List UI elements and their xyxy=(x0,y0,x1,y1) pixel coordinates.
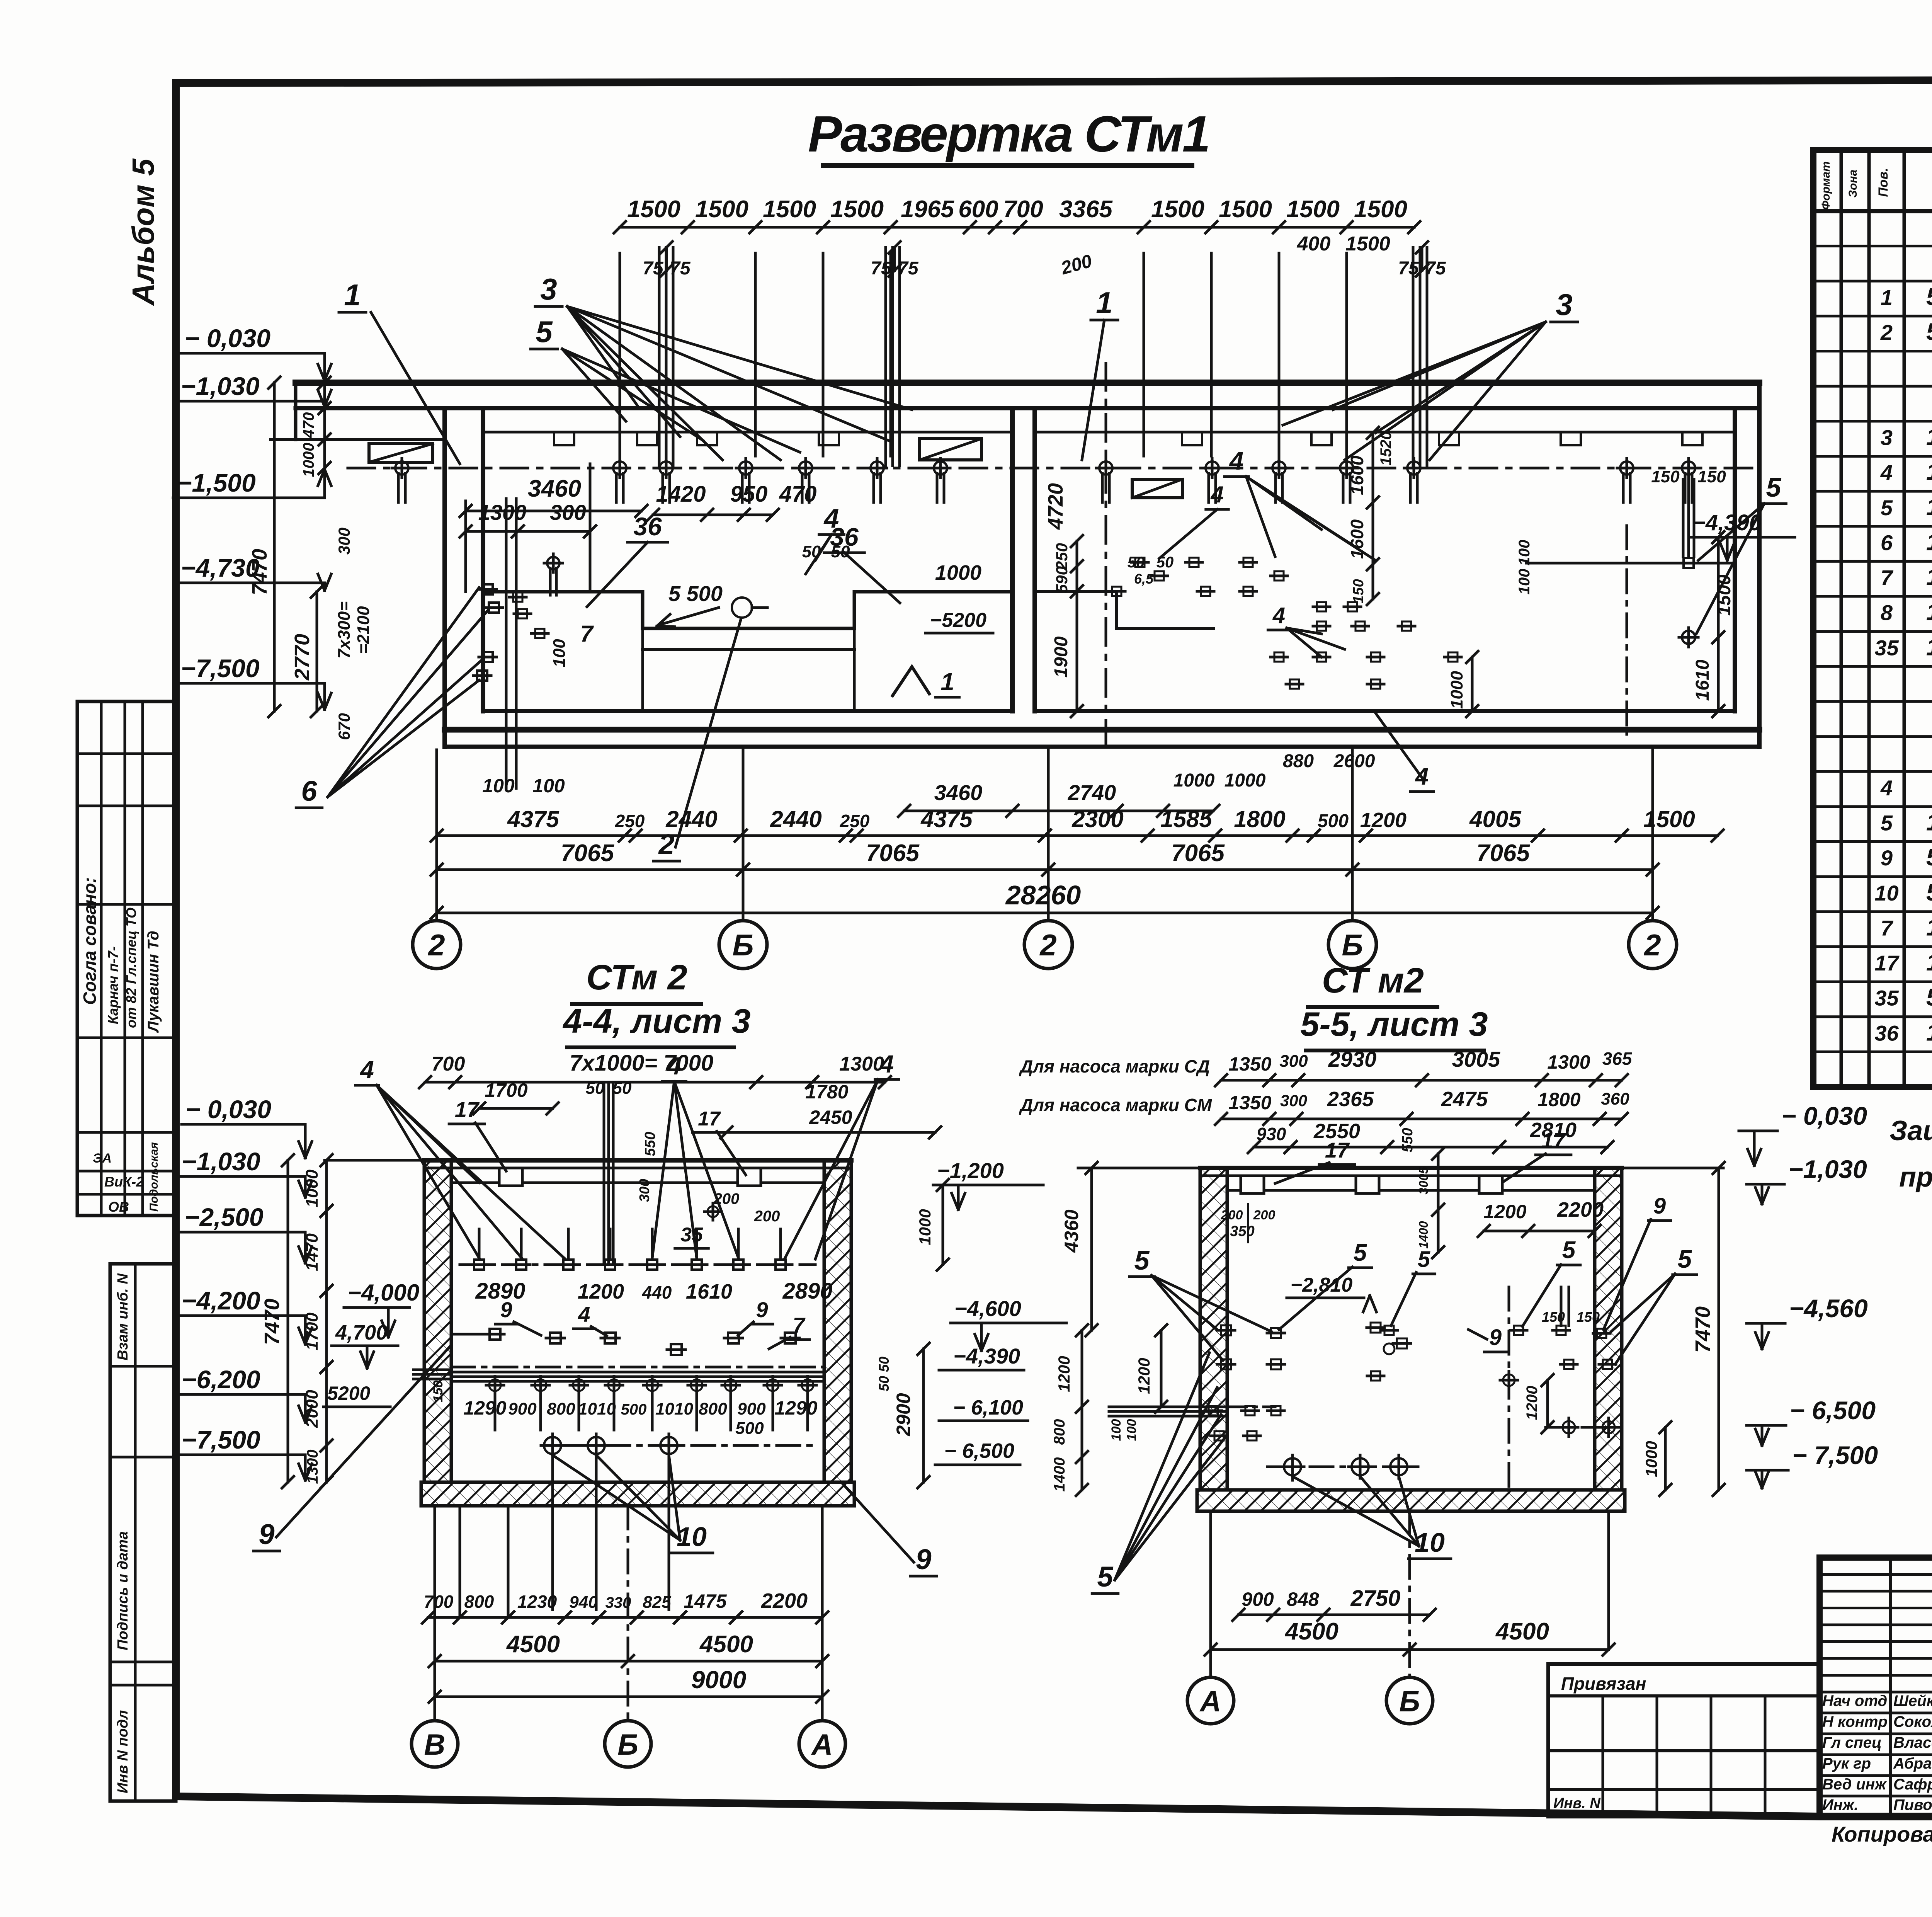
svg-text:550: 550 xyxy=(1400,1128,1416,1152)
svg-text:5: 5 xyxy=(1881,495,1893,520)
svg-text:350: 350 xyxy=(1230,1223,1254,1239)
svg-text:1010: 1010 xyxy=(655,1399,693,1418)
elevation marks on step xyxy=(547,557,560,569)
svg-text:Подпись и дата: Подпись и дата xyxy=(115,1531,131,1650)
svg-text:Зона: Зона xyxy=(1847,170,1859,197)
svg-text:100: 100 xyxy=(1516,540,1533,566)
svg-text:9: 9 xyxy=(1489,1325,1502,1350)
svg-text:−5200: −5200 xyxy=(930,609,986,632)
svg-text:5.900-2: 5.900-2 xyxy=(1926,284,1932,310)
elevation right vert dim xyxy=(1717,537,1720,711)
svg-text:1 400-15 Вып 1: 1 400-15 Вып 1 xyxy=(1926,809,1932,836)
svg-text:2440: 2440 xyxy=(665,806,717,832)
svg-text:75: 75 xyxy=(670,258,691,279)
svg-text:− 0,030: − 0,030 xyxy=(1781,1102,1867,1130)
svg-text:−4,390: −4,390 xyxy=(1692,510,1762,535)
svg-text:7470: 7470 xyxy=(248,549,271,595)
svg-text:Б: Б xyxy=(732,928,753,962)
svg-text:− 0,030: − 0,030 xyxy=(185,1095,271,1124)
elevation anchor pair left bay xyxy=(505,499,508,788)
svg-text:100: 100 xyxy=(1109,1419,1124,1441)
svg-text:3365: 3365 xyxy=(1059,196,1113,223)
svg-text:2: 2 xyxy=(658,828,674,860)
svg-text:Заштрихованые закладные изде: Заштрихованые закладные изделия xyxy=(1889,1115,1932,1146)
svg-text:5 500: 5 500 xyxy=(668,581,723,606)
svg-text:35: 35 xyxy=(680,1224,703,1246)
svg-text:28260: 28260 xyxy=(1005,880,1081,910)
svg-text:50: 50 xyxy=(1156,554,1174,571)
svg-text:700: 700 xyxy=(424,1592,454,1612)
svg-text:1.400-15 Вып 1: 1.400-15 Вып 1 xyxy=(1926,529,1932,555)
s44 anchor row 2 xyxy=(550,1333,561,1343)
svg-text:Н контр: Н контр xyxy=(1822,1713,1888,1730)
svg-text:3: 3 xyxy=(1556,288,1572,322)
svg-text:1 400-15 Вып 1: 1 400-15 Вып 1 xyxy=(1926,564,1932,591)
svg-text:Сафрончик: Сафрончик xyxy=(1893,1776,1932,1793)
svg-text:150: 150 xyxy=(431,1381,446,1403)
svg-text:от 82 Гл.спец ТО: от 82 Гл.спец ТО xyxy=(123,907,139,1028)
svg-text:10: 10 xyxy=(1874,881,1898,905)
svg-text:9000: 9000 xyxy=(691,1666,746,1694)
svg-text:1610: 1610 xyxy=(1692,659,1713,701)
svg-text:470: 470 xyxy=(300,412,317,439)
svg-text:4-4, лист 3: 4-4, лист 3 xyxy=(562,1002,750,1040)
svg-text:470: 470 xyxy=(779,482,817,507)
svg-text:Гл спец: Гл спец xyxy=(1822,1734,1882,1751)
svg-text:− 6,500: − 6,500 xyxy=(944,1439,1014,1462)
svg-text:1400: 1400 xyxy=(1051,1457,1068,1492)
svg-text:6,5: 6,5 xyxy=(1134,571,1154,587)
svg-text:4500: 4500 xyxy=(1284,1618,1338,1645)
svg-text:1700: 1700 xyxy=(485,1079,527,1101)
svg-text:1290: 1290 xyxy=(463,1397,506,1419)
svg-text:100: 100 xyxy=(1124,1419,1139,1441)
svg-text:100: 100 xyxy=(1516,569,1533,595)
svg-text:−1,030: −1,030 xyxy=(1788,1155,1867,1183)
svg-text:6: 6 xyxy=(301,775,317,807)
elevation rebar singles xyxy=(619,253,621,456)
svg-text:400: 400 xyxy=(1297,233,1331,255)
svg-text:950: 950 xyxy=(730,482,768,507)
svg-text:5: 5 xyxy=(1766,472,1782,502)
elevation circle 2 target xyxy=(732,598,752,618)
svg-text:1965: 1965 xyxy=(901,196,954,223)
s55 right cluster xyxy=(1556,1326,1566,1335)
svg-text:1000: 1000 xyxy=(935,561,981,584)
s55 big anchors xyxy=(1284,1458,1301,1475)
svg-text:50: 50 xyxy=(586,1079,605,1098)
elevation right wall xyxy=(1733,408,1737,711)
svg-text:200: 200 xyxy=(754,1208,780,1225)
elevation notch line xyxy=(483,431,1012,434)
svg-text:Пивоварова: Пивоварова xyxy=(1893,1796,1932,1813)
svg-text:590: 590 xyxy=(1053,566,1071,593)
svg-text:Вед инж: Вед инж xyxy=(1822,1776,1887,1793)
svg-text:900: 900 xyxy=(737,1399,766,1418)
svg-text:5: 5 xyxy=(1562,1237,1576,1263)
svg-text:1200: 1200 xyxy=(1483,1201,1526,1222)
svg-text:1470: 1470 xyxy=(303,1233,321,1271)
svg-text:9: 9 xyxy=(915,1543,931,1575)
svg-text:7065: 7065 xyxy=(561,840,614,867)
title block revision grid xyxy=(1820,1573,1932,1576)
svg-text:2365: 2365 xyxy=(1327,1088,1374,1111)
svg-text:1475: 1475 xyxy=(684,1590,727,1612)
svg-text:9: 9 xyxy=(1881,846,1893,870)
svg-text:7065: 7065 xyxy=(1171,840,1225,867)
svg-text:4005: 4005 xyxy=(1469,806,1522,832)
svg-text:3: 3 xyxy=(1881,425,1893,449)
svg-text:3: 3 xyxy=(540,272,557,306)
svg-text:1500: 1500 xyxy=(1151,196,1204,223)
svg-text:900: 900 xyxy=(1242,1588,1274,1610)
svg-text:5.900-2: 5.900-2 xyxy=(1926,984,1932,1011)
svg-text:−2,500: −2,500 xyxy=(185,1203,264,1231)
svg-text:1500: 1500 xyxy=(1286,196,1340,223)
svg-text:36: 36 xyxy=(633,512,662,541)
elevation hatched opening xyxy=(920,439,981,460)
svg-text:1200: 1200 xyxy=(1524,1386,1541,1420)
svg-text:150: 150 xyxy=(1577,1309,1600,1325)
svg-text:1300: 1300 xyxy=(478,500,527,524)
svg-text:4: 4 xyxy=(578,1302,590,1326)
svg-text:6: 6 xyxy=(1881,530,1893,555)
svg-text:1900: 1900 xyxy=(1051,636,1071,678)
svg-text:50: 50 xyxy=(876,1376,892,1391)
svg-text:5: 5 xyxy=(1097,1561,1114,1593)
elevation centre dashdot xyxy=(1105,363,1107,748)
s44 grid verticals xyxy=(434,1506,436,1721)
svg-text:1500: 1500 xyxy=(1714,574,1735,616)
svg-text:− 7,500: − 7,500 xyxy=(1792,1441,1878,1469)
svg-text:1800: 1800 xyxy=(1234,806,1285,832)
svg-text:7065: 7065 xyxy=(1476,840,1530,867)
svg-text:2900: 2900 xyxy=(893,1393,914,1436)
svg-text:Б: Б xyxy=(1342,928,1363,962)
elevation small platform left xyxy=(369,444,433,462)
svg-text:А: А xyxy=(811,1728,833,1761)
svg-text:1500: 1500 xyxy=(1354,196,1407,223)
title block frame xyxy=(1820,1558,1932,1817)
svg-text:75: 75 xyxy=(898,258,919,279)
svg-text:−4,390: −4,390 xyxy=(953,1344,1020,1368)
svg-text:1290: 1290 xyxy=(774,1397,817,1419)
svg-text:2930: 2930 xyxy=(1328,1047,1377,1071)
svg-text:10: 10 xyxy=(677,1522,707,1552)
svg-text:848: 848 xyxy=(1287,1588,1319,1610)
svg-text:1000: 1000 xyxy=(1173,770,1215,791)
svg-text:−7,500: −7,500 xyxy=(181,654,260,683)
privyazan block xyxy=(1548,1664,1820,1817)
svg-text:670: 670 xyxy=(335,713,353,740)
svg-text:1500: 1500 xyxy=(1345,233,1390,255)
svg-text:Б: Б xyxy=(1399,1685,1420,1718)
svg-text:7470: 7470 xyxy=(260,1299,284,1345)
svg-text:3005: 3005 xyxy=(1417,1166,1430,1194)
svg-text:4500: 4500 xyxy=(506,1631,560,1658)
svg-text:Альбом 5: Альбом 5 xyxy=(126,158,160,306)
svg-text:−1,030: −1,030 xyxy=(181,372,260,400)
svg-text:2770: 2770 xyxy=(291,634,314,681)
svg-text:−4,560: −4,560 xyxy=(1789,1294,1868,1323)
elevation check mark xyxy=(893,667,929,696)
svg-text:100: 100 xyxy=(550,639,569,667)
svg-text:440: 440 xyxy=(642,1282,672,1302)
svg-text:СТм 2: СТм 2 xyxy=(586,958,687,997)
svg-text:−1,030: −1,030 xyxy=(182,1147,260,1176)
svg-text:17: 17 xyxy=(455,1097,480,1122)
svg-text:2: 2 xyxy=(1643,928,1661,962)
s55 markers row1 xyxy=(1221,1325,1231,1335)
svg-text:4720: 4720 xyxy=(1044,483,1067,530)
svg-text:1000: 1000 xyxy=(1447,671,1466,709)
svg-text:940: 940 xyxy=(569,1593,598,1612)
svg-text:35: 35 xyxy=(1874,635,1899,660)
s55 interior channels xyxy=(1241,1176,1264,1193)
svg-text:9: 9 xyxy=(500,1297,512,1322)
svg-text:5-5, лист 3: 5-5, лист 3 xyxy=(1300,1005,1488,1043)
svg-text:1600: 1600 xyxy=(1347,455,1367,495)
s55 centre markers xyxy=(1384,1326,1394,1335)
svg-text:2: 2 xyxy=(1880,320,1893,345)
svg-text:=2100: =2100 xyxy=(354,606,373,654)
svg-text:50: 50 xyxy=(613,1079,632,1098)
svg-text:7: 7 xyxy=(580,621,594,647)
svg-text:17: 17 xyxy=(698,1108,721,1130)
svg-text:Нач отд: Нач отд xyxy=(1822,1692,1887,1709)
svg-text:1000: 1000 xyxy=(303,1170,321,1207)
elevation right bay markers xyxy=(1135,558,1145,567)
elevation level vert dims xyxy=(323,383,326,468)
svg-text:1780: 1780 xyxy=(805,1081,848,1103)
svg-text:1 400-15 Вып 1: 1 400-15 Вып 1 xyxy=(1926,914,1932,941)
svg-text:4375: 4375 xyxy=(920,806,973,832)
s44 anchor row 3 xyxy=(489,1379,501,1391)
svg-text:550: 550 xyxy=(642,1132,658,1156)
svg-text:9: 9 xyxy=(1653,1193,1666,1219)
svg-text:приварить к арматуре стен: приварить к арматуре стен xyxy=(1899,1162,1932,1193)
svg-text:825: 825 xyxy=(643,1593,671,1612)
svg-text:8: 8 xyxy=(1881,601,1893,625)
svg-text:35: 35 xyxy=(1874,986,1899,1010)
elevation step marks left wall xyxy=(483,584,493,594)
title block signature rows xyxy=(1820,1691,1932,1694)
svg-text:2200: 2200 xyxy=(1557,1198,1604,1221)
s55 grid verticals xyxy=(1209,1511,1212,1677)
svg-text:300: 300 xyxy=(1279,1052,1308,1071)
svg-text:2: 2 xyxy=(1039,928,1056,962)
svg-text:1500: 1500 xyxy=(1219,196,1272,223)
svg-text:9: 9 xyxy=(756,1297,768,1322)
svg-text:4500: 4500 xyxy=(699,1631,753,1658)
svg-text:− 0,030: − 0,030 xyxy=(185,324,270,352)
svg-text:300: 300 xyxy=(1280,1091,1307,1110)
svg-text:1200: 1200 xyxy=(1055,1356,1073,1392)
s44 vert dims left xyxy=(325,1160,328,1482)
svg-text:4: 4 xyxy=(879,1050,894,1078)
left stamp lower block xyxy=(110,1264,176,1801)
svg-text:75: 75 xyxy=(1425,258,1446,279)
svg-text:1500: 1500 xyxy=(830,196,884,223)
svg-text:СТ м2: СТ м2 xyxy=(1322,961,1424,1000)
svg-text:250: 250 xyxy=(615,811,645,831)
elevation interior steps right bay xyxy=(1035,592,1213,628)
svg-text:800: 800 xyxy=(464,1592,494,1612)
elevation grid lines xyxy=(435,750,438,921)
svg-text:Для насоса марки СМ: Для насоса марки СМ xyxy=(1019,1095,1213,1115)
svg-text:− 6,100: − 6,100 xyxy=(953,1396,1023,1419)
svg-text:Развертка СТм1: Развертка СТм1 xyxy=(808,106,1209,162)
svg-text:800: 800 xyxy=(699,1399,727,1418)
elevation hatched opening 2 xyxy=(1132,479,1182,498)
svg-text:200: 200 xyxy=(713,1190,740,1207)
svg-text:1010: 1010 xyxy=(578,1399,616,1418)
svg-text:5: 5 xyxy=(536,315,553,349)
svg-text:Карнач п-7-: Карнач п-7- xyxy=(105,946,121,1024)
s55 right mid markers xyxy=(1503,1374,1515,1386)
svg-text:Для насоса марки СД: Для насоса марки СД xyxy=(1019,1056,1210,1076)
svg-text:2600: 2600 xyxy=(1333,751,1375,771)
svg-text:Формат: Формат xyxy=(1820,161,1832,209)
spec table grid xyxy=(1813,150,1932,1087)
svg-text:Инв N подл: Инв N подл xyxy=(115,1710,131,1793)
svg-text:1.400-15 Вып 1: 1.400-15 Вып 1 xyxy=(1926,634,1932,661)
svg-text:3460: 3460 xyxy=(528,475,581,502)
svg-text:17: 17 xyxy=(1541,1128,1566,1153)
s44 dim extension verticals xyxy=(459,1506,461,1617)
svg-text:5: 5 xyxy=(1418,1247,1430,1272)
svg-text:17: 17 xyxy=(1325,1138,1350,1162)
svg-text:Сокольская: Сокольская xyxy=(1893,1713,1932,1730)
svg-text:1 400-15 Вып 1: 1 400-15 Вып 1 xyxy=(1926,949,1932,976)
svg-text:17: 17 xyxy=(1874,951,1900,975)
svg-text:Лукавшин Тд: Лукавшин Тд xyxy=(145,931,162,1033)
svg-text:5: 5 xyxy=(1134,1245,1150,1275)
svg-text:1 400-15 Вып 1: 1 400-15 Вып 1 xyxy=(1926,424,1932,450)
svg-text:50: 50 xyxy=(831,542,850,561)
s55 box outline xyxy=(1078,1167,1200,1170)
svg-text:1200: 1200 xyxy=(1360,809,1406,832)
svg-text:Б: Б xyxy=(617,1728,638,1761)
svg-text:7х1000= 7000: 7х1000= 7000 xyxy=(570,1050,714,1076)
svg-text:5 900-2: 5 900-2 xyxy=(1926,319,1932,346)
svg-text:2740: 2740 xyxy=(1068,780,1116,805)
svg-text:300: 300 xyxy=(636,1179,652,1202)
svg-text:5: 5 xyxy=(1354,1239,1367,1266)
svg-text:150: 150 xyxy=(1651,467,1680,486)
svg-text:1500: 1500 xyxy=(627,196,680,223)
s44 box outline xyxy=(325,1159,424,1162)
svg-text:ЭА: ЭА xyxy=(93,1151,112,1166)
elevation central wall xyxy=(1010,408,1015,711)
svg-text:1: 1 xyxy=(940,668,954,696)
s44 interior channels xyxy=(499,1168,522,1186)
svg-text:1200: 1200 xyxy=(1135,1358,1153,1394)
svg-text:1.400-15 Вып. 1: 1.400-15 Вып. 1 xyxy=(1926,494,1932,521)
svg-text:1 400-15 Вып 1: 1 400-15 Вып 1 xyxy=(1926,1019,1932,1046)
elevation anchor dashdot line xyxy=(348,467,1754,470)
svg-text:500: 500 xyxy=(1318,811,1349,831)
svg-text:Инж.: Инж. xyxy=(1822,1796,1859,1813)
svg-text:4500: 4500 xyxy=(1495,1618,1549,1645)
svg-text:2000: 2000 xyxy=(303,1390,321,1428)
svg-text:Пов.: Пов. xyxy=(1876,168,1891,197)
svg-text:880: 880 xyxy=(1283,751,1314,771)
svg-text:4375: 4375 xyxy=(507,806,560,832)
svg-text:4: 4 xyxy=(1272,603,1285,628)
svg-text:250: 250 xyxy=(840,811,870,831)
svg-text:3460: 3460 xyxy=(934,780,983,805)
svg-text:2450: 2450 xyxy=(809,1107,852,1128)
svg-text:2200: 2200 xyxy=(761,1589,808,1612)
elevation floor xyxy=(483,709,1012,713)
svg-text:1420: 1420 xyxy=(656,482,706,507)
s44 walls hatch xyxy=(424,1160,451,1482)
svg-text:7470: 7470 xyxy=(1691,1306,1714,1353)
svg-text:4: 4 xyxy=(667,1052,681,1080)
svg-text:1200: 1200 xyxy=(578,1280,624,1303)
svg-text:А: А xyxy=(1199,1685,1221,1718)
svg-text:4360: 4360 xyxy=(1061,1209,1082,1253)
svg-text:В: В xyxy=(424,1728,446,1761)
svg-text:50: 50 xyxy=(802,542,821,561)
svg-text:1000: 1000 xyxy=(916,1209,934,1245)
svg-text:Согла совано:: Согла совано: xyxy=(80,877,100,1005)
elevation right wall anchors xyxy=(1626,526,1628,734)
svg-text:4: 4 xyxy=(1880,776,1893,800)
svg-text:5: 5 xyxy=(1881,811,1893,835)
svg-text:1300: 1300 xyxy=(1547,1051,1590,1073)
svg-text:Привязан: Привязан xyxy=(1561,1674,1646,1694)
svg-text:1300: 1300 xyxy=(839,1053,884,1075)
elevation interior steps left bay xyxy=(483,592,1012,628)
svg-text:1520: 1520 xyxy=(1378,431,1395,466)
svg-text:360: 360 xyxy=(1601,1090,1629,1108)
svg-text:800: 800 xyxy=(1051,1419,1068,1445)
svg-text:700: 700 xyxy=(432,1053,465,1075)
svg-text:1350: 1350 xyxy=(1228,1053,1271,1075)
svg-text:600: 600 xyxy=(958,196,998,223)
svg-text:150: 150 xyxy=(1697,467,1726,486)
svg-text:Абрамова: Абрамова xyxy=(1893,1755,1932,1772)
svg-text:3005: 3005 xyxy=(1452,1047,1500,1071)
svg-text:50: 50 xyxy=(1128,554,1145,571)
svg-text:5 900-2: 5 900-2 xyxy=(1926,879,1932,906)
svg-text:1500: 1500 xyxy=(695,196,748,223)
svg-text:−4,200: −4,200 xyxy=(182,1286,260,1315)
svg-text:300: 300 xyxy=(550,500,586,524)
svg-text:2890: 2890 xyxy=(782,1279,832,1304)
s55 level lines 6100 xyxy=(1109,1406,1227,1408)
elevation left wall xyxy=(442,408,447,747)
svg-text:Шейко: Шейко xyxy=(1893,1692,1932,1709)
svg-text:4: 4 xyxy=(823,503,839,533)
svg-text:200: 200 xyxy=(1221,1208,1243,1222)
s55 markers row3 xyxy=(1209,1406,1218,1415)
svg-text:Копировал:: Копировал: xyxy=(1832,1822,1932,1846)
elevation top slab xyxy=(296,380,1759,386)
svg-text:4: 4 xyxy=(1229,446,1244,475)
svg-text:700: 700 xyxy=(1003,196,1043,223)
elevation right bay vert dim xyxy=(1372,433,1374,599)
svg-text:1500: 1500 xyxy=(1643,806,1695,832)
svg-text:−4,000: −4,000 xyxy=(348,1280,419,1306)
svg-text:5: 5 xyxy=(1678,1245,1692,1273)
svg-text:5200: 5200 xyxy=(327,1382,370,1404)
svg-text:1350: 1350 xyxy=(1228,1092,1271,1113)
svg-text:1: 1 xyxy=(344,278,361,312)
svg-text:500: 500 xyxy=(621,1401,647,1418)
